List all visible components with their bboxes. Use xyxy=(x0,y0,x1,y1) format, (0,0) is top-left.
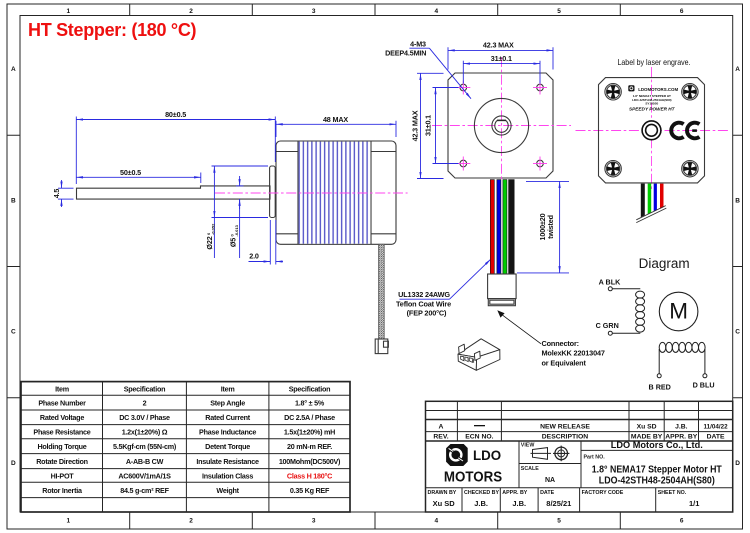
svg-text:8/25/21: 8/25/21 xyxy=(546,499,571,508)
svg-text:3: 3 xyxy=(312,8,316,15)
svg-text:42.3 MAX: 42.3 MAX xyxy=(483,41,514,50)
svg-text:84.5 g-cm² REF: 84.5 g-cm² REF xyxy=(120,486,169,495)
svg-text:Phase Inductance: Phase Inductance xyxy=(199,428,256,437)
svg-text:J.B.: J.B. xyxy=(512,499,526,508)
svg-text:5.5Kgf-cm (55N-cm): 5.5Kgf-cm (55N-cm) xyxy=(113,442,177,451)
svg-text:DATE: DATE xyxy=(540,490,554,496)
svg-text:B RED: B RED xyxy=(649,383,671,392)
svg-text:1.2x(1±20%) Ω: 1.2x(1±20%) Ω xyxy=(122,428,168,437)
svg-text:6: 6 xyxy=(680,8,684,15)
svg-text:or Equivalent: or Equivalent xyxy=(542,358,587,367)
svg-text:3: 3 xyxy=(312,518,316,525)
svg-text:Rated Current: Rated Current xyxy=(205,413,251,422)
svg-text:A: A xyxy=(439,423,444,430)
svg-text:J.B.: J.B. xyxy=(474,499,488,508)
svg-text:Part NO.: Part NO. xyxy=(584,455,606,461)
svg-text:1: 1 xyxy=(66,518,70,525)
svg-text:6: 6 xyxy=(680,518,684,525)
svg-text:Connector:: Connector: xyxy=(542,339,579,348)
svg-text:SHEET NO.: SHEET NO. xyxy=(658,490,687,496)
svg-text:REV.: REV. xyxy=(433,434,448,441)
svg-text:B: B xyxy=(735,197,740,204)
svg-text:B: B xyxy=(11,197,16,204)
svg-text:Xu SD: Xu SD xyxy=(433,499,456,508)
svg-text:CHECKED BY: CHECKED BY xyxy=(464,490,499,496)
svg-text:DRAWN BY: DRAWN BY xyxy=(428,490,457,496)
svg-text:Rotate Direction: Rotate Direction xyxy=(36,457,88,466)
svg-text:HT Stepper: (180 °C): HT Stepper: (180 °C) xyxy=(28,20,197,40)
svg-text:100Mohm(DC500V): 100Mohm(DC500V) xyxy=(279,457,341,466)
svg-text:Xu SD: Xu SD xyxy=(637,423,657,430)
svg-text:1.5x(1±20%) mH: 1.5x(1±20%) mH xyxy=(284,428,335,437)
svg-text:DC 3.0V / Phase: DC 3.0V / Phase xyxy=(119,413,170,422)
svg-text:HI-POT: HI-POT xyxy=(51,471,75,480)
svg-text:ECN NO.: ECN NO. xyxy=(465,434,493,441)
svg-text:4-M3: 4-M3 xyxy=(410,40,426,49)
svg-text:80±0.5: 80±0.5 xyxy=(165,110,186,119)
svg-text:SPEEDY POWER HT: SPEEDY POWER HT xyxy=(629,106,676,111)
svg-text:Specification: Specification xyxy=(289,384,330,393)
svg-text:1.8° NEMA17 Stepper Motor HT: 1.8° NEMA17 Stepper Motor HT xyxy=(592,464,723,475)
svg-text:A: A xyxy=(735,66,740,73)
svg-text:5: 5 xyxy=(557,8,561,15)
svg-text:LDO-42STH48-2504AH(S80): LDO-42STH48-2504AH(S80) xyxy=(599,476,715,487)
svg-text:2: 2 xyxy=(143,399,147,408)
svg-text:LDO: LDO xyxy=(473,448,501,463)
svg-text:Insulation Class: Insulation Class xyxy=(202,471,253,480)
svg-text:48 MAX: 48 MAX xyxy=(323,115,348,124)
svg-text:Diagram: Diagram xyxy=(639,256,690,271)
svg-text:20 mN-m REF.: 20 mN-m REF. xyxy=(287,442,332,451)
svg-text:1.8° ± 5%: 1.8° ± 5% xyxy=(295,399,325,408)
svg-text:4.5: 4.5 xyxy=(52,189,61,199)
svg-text:Detent Torque: Detent Torque xyxy=(205,442,250,451)
svg-text:MolexKK 22013047: MolexKK 22013047 xyxy=(542,349,605,358)
svg-text:DESCRIPTION: DESCRIPTION xyxy=(542,434,589,441)
svg-text:5: 5 xyxy=(557,518,561,525)
svg-text:-0.013: -0.013 xyxy=(234,224,239,236)
svg-text:0.35 Kg REF: 0.35 Kg REF xyxy=(290,486,330,495)
svg-text:SCALE: SCALE xyxy=(521,466,539,472)
svg-text:31±0.1: 31±0.1 xyxy=(424,115,433,136)
svg-text:1/1: 1/1 xyxy=(689,499,699,508)
svg-text:LDOMOTORS.COM: LDOMOTORS.COM xyxy=(638,87,678,92)
svg-text:Phase Number: Phase Number xyxy=(38,399,86,408)
svg-text:DC 2.5A / Phase: DC 2.5A / Phase xyxy=(284,413,335,422)
svg-text:Ø22: Ø22 xyxy=(205,236,214,249)
svg-text:Label by laser engrave.: Label by laser engrave. xyxy=(618,57,691,67)
svg-text:twisted: twisted xyxy=(546,215,555,239)
svg-text:50±0.5: 50±0.5 xyxy=(120,168,141,177)
svg-text:4: 4 xyxy=(434,8,438,15)
svg-text:A: A xyxy=(11,66,16,73)
svg-text:J.B.: J.B. xyxy=(675,423,688,430)
svg-text:D BLU: D BLU xyxy=(693,380,715,389)
svg-text:2: 2 xyxy=(189,8,193,15)
svg-text:11/04/22: 11/04/22 xyxy=(704,423,729,430)
svg-text:D: D xyxy=(735,460,740,467)
svg-text:1: 1 xyxy=(66,8,70,15)
svg-text:DATE: DATE xyxy=(707,434,725,441)
svg-text:4: 4 xyxy=(434,518,438,525)
svg-text:2: 2 xyxy=(189,518,193,525)
svg-text:Weight: Weight xyxy=(216,486,239,495)
svg-text:NEW RELEASE: NEW RELEASE xyxy=(540,423,590,430)
svg-text:DEEP4.5MIN: DEEP4.5MIN xyxy=(385,48,426,57)
svg-text:VIEW: VIEW xyxy=(521,443,535,449)
svg-text:Class H 180°C: Class H 180°C xyxy=(287,471,332,480)
svg-text:Teflon Coat Wire: Teflon Coat Wire xyxy=(396,299,451,308)
svg-text:NA: NA xyxy=(545,477,555,484)
svg-text:Item: Item xyxy=(221,384,235,393)
svg-text:Phase Resistance: Phase Resistance xyxy=(33,428,90,437)
svg-text:Specification: Specification xyxy=(124,384,165,393)
svg-text:C: C xyxy=(11,329,16,336)
svg-text:SY180S0: SY180S0 xyxy=(645,102,658,106)
svg-text:31±0.1: 31±0.1 xyxy=(491,54,512,63)
svg-text:A-AB-B CW: A-AB-B CW xyxy=(126,457,164,466)
svg-text:Holding Torque: Holding Torque xyxy=(37,442,86,451)
svg-text:(FEP 200°C): (FEP 200°C) xyxy=(407,309,447,318)
svg-text:M: M xyxy=(669,298,688,323)
svg-text:42.3 MAX: 42.3 MAX xyxy=(410,110,419,141)
svg-text:MOTORS: MOTORS xyxy=(444,468,502,485)
svg-text:APPR. BY: APPR. BY xyxy=(502,490,527,496)
svg-text:C GRN: C GRN xyxy=(596,321,619,330)
svg-text:A BLK: A BLK xyxy=(599,277,622,286)
svg-text:D: D xyxy=(11,460,16,467)
svg-text:Rotor Inertia: Rotor Inertia xyxy=(42,486,83,495)
svg-text:AC600V/1mA/1S: AC600V/1mA/1S xyxy=(118,471,171,480)
svg-text:Step Angle: Step Angle xyxy=(210,399,245,408)
svg-text:Rated Voltage: Rated Voltage xyxy=(40,413,84,422)
svg-text:2.0: 2.0 xyxy=(249,252,259,261)
svg-text:-0.052: -0.052 xyxy=(211,223,216,235)
svg-text:Ø5: Ø5 xyxy=(229,238,238,247)
svg-text:LDO Motors Co., Ltd.: LDO Motors Co., Ltd. xyxy=(611,440,703,451)
svg-text:FACTORY CODE: FACTORY CODE xyxy=(582,490,624,496)
svg-text:C: C xyxy=(735,329,740,336)
svg-text:Insulate Resistance: Insulate Resistance xyxy=(196,457,259,466)
svg-text:Item: Item xyxy=(55,384,69,393)
svg-text:UL1332 24AWG: UL1332 24AWG xyxy=(398,290,450,299)
